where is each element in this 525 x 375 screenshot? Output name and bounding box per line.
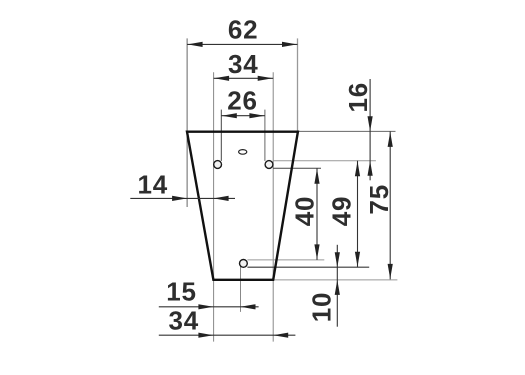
- dimension 34 bottom line: [159, 334, 296, 336]
- dimension 34 top right arrow: [258, 76, 273, 81]
- hole bottom-center: [240, 260, 248, 268]
- extension line 26-left (x=221.3): [220, 110, 222, 161]
- dimension 15 line: [159, 306, 259, 308]
- dimension 10 line: [336, 245, 338, 327]
- dimension 15 right-pointing arrow: [198, 304, 213, 309]
- svg-text:10: 10: [307, 292, 337, 323]
- dimension 34 top line: [214, 77, 274, 79]
- dimension 49 up arrow: [355, 161, 360, 176]
- dimension 16 line: [369, 79, 371, 180]
- dimension 75 line: [389, 131, 391, 279]
- extension line right of 62 (x=297.5): [297, 38, 299, 131]
- extension line bottom hole for 15 (x=240.5): [240, 266, 242, 312]
- dimension 62 line: [187, 43, 297, 45]
- dimension 26 line: [221, 115, 265, 117]
- dimension 10 down arrow: [335, 252, 340, 267]
- dimension 10 up arrow: [335, 280, 340, 295]
- dimension 26 left arrow: [222, 113, 237, 118]
- dimension 16 down arrow: [368, 116, 373, 131]
- dimension 16 up arrow: [368, 161, 373, 176]
- svg-text:34: 34: [169, 306, 200, 336]
- svg-text:15: 15: [166, 277, 197, 307]
- dimension 34 bottom left-pointing arrow: [273, 333, 288, 338]
- part outline trapezoid body: [187, 132, 298, 280]
- svg-text:34: 34: [228, 49, 259, 79]
- svg-text:16: 16: [343, 82, 373, 113]
- slot (oval hole): [239, 150, 247, 155]
- dimension 62 left arrow: [188, 42, 203, 47]
- svg-text:75: 75: [364, 184, 394, 215]
- dimension 40 down arrow: [314, 244, 319, 259]
- dimension 34 bottom right-pointing arrow: [198, 333, 213, 338]
- svg-text:40: 40: [289, 196, 319, 227]
- dimension 14 left-pointing arrow (outside right): [214, 196, 229, 201]
- dimension 75 down arrow: [388, 264, 393, 279]
- svg-text:14: 14: [138, 169, 169, 199]
- hole upper-right: [265, 161, 273, 169]
- extension line lower hole top (y=259.9): [247, 259, 324, 261]
- extension line upper hole top (y=160.7): [273, 160, 376, 162]
- dimension 15 left-pointing arrow: [241, 304, 256, 309]
- dimension 40 up arrow: [314, 169, 319, 184]
- dimension 14 line: [130, 197, 235, 199]
- dimension 75 up arrow: [388, 132, 393, 147]
- svg-text:62: 62: [228, 15, 259, 45]
- extension line bottom edge level (y=279.9): [275, 279, 398, 281]
- dimension 49 down arrow: [355, 252, 360, 267]
- dimension 34 top left arrow: [214, 76, 229, 81]
- dimension 62 right arrow: [282, 42, 297, 47]
- dimension 49 line: [357, 161, 359, 268]
- dimension 40 line: [316, 168, 318, 260]
- svg-text:26: 26: [227, 86, 258, 116]
- hole upper-left: [214, 161, 222, 169]
- extension line top edge level (y=131.4): [299, 130, 396, 132]
- svg-text:49: 49: [327, 196, 357, 227]
- extension line lower hole bottom (y=267.2): [247, 266, 369, 268]
- extension line upper hole bottom (y=168.2): [273, 167, 321, 169]
- extension line 26-right (x=264.9): [264, 110, 266, 161]
- dimension 14 right-pointing arrow (outside left): [172, 196, 187, 201]
- dimension 26 right arrow: [249, 113, 264, 118]
- extension line 34-left running to bottom corner (x=213.6): [213, 72, 215, 341]
- extension line left of 62/14 (x=187): [186, 38, 188, 207]
- extension line 34-right running to bottom corner (x=273.2): [272, 72, 274, 341]
